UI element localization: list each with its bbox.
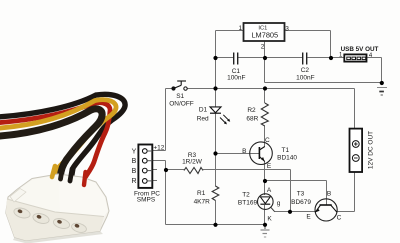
wire connector pin R stub xyxy=(152,180,157,182)
ground at USB xyxy=(377,88,387,96)
connector body right bright face xyxy=(55,175,108,217)
capacitor C1 xyxy=(227,53,245,82)
wire connector pin B2 lead xyxy=(152,160,165,162)
node rail/R2 xyxy=(263,86,267,90)
wire +12 rail S1 to 12V out corner xyxy=(187,88,355,90)
wire capacitor row C1-C2 xyxy=(238,57,302,59)
node T1 base xyxy=(213,151,217,155)
wire up to 12V out minus xyxy=(354,172,356,212)
node USB ground xyxy=(380,81,384,85)
wire harness black strand 1 (outer) xyxy=(0,94,125,180)
svg-text:S1: S1 xyxy=(176,93,184,100)
wire stub red over body xyxy=(84,172,86,185)
wire stub black over body xyxy=(61,167,63,179)
node output/C2 xyxy=(329,56,333,60)
svg-text:12V DC OUT: 12V DC OUT xyxy=(368,131,375,169)
node C1 left xyxy=(213,56,217,60)
node pin2/C row xyxy=(263,56,267,60)
svg-text:2: 2 xyxy=(261,44,265,51)
wire connector pin Y lead xyxy=(152,150,165,152)
wire T3 base drop xyxy=(326,181,328,206)
svg-text:E: E xyxy=(306,214,311,221)
connector body top-front edge xyxy=(7,199,104,217)
svg-text:A: A xyxy=(267,187,272,194)
svg-text:K: K xyxy=(267,215,272,222)
wire IC1 pin3 to right xyxy=(285,30,331,32)
connector body front face xyxy=(6,199,104,241)
svg-text:Red: Red xyxy=(197,116,209,123)
wire capacitor row C1 left xyxy=(216,57,234,59)
thyristor T2 BT169 xyxy=(238,187,281,222)
svg-text:ON/OFF: ON/OFF xyxy=(169,100,194,107)
svg-text:T2: T2 xyxy=(242,192,250,199)
wire anode node to T3 base row xyxy=(265,180,327,182)
wire R2 top lead xyxy=(264,89,266,104)
svg-text:68R: 68R xyxy=(246,115,258,122)
ground at T2 cathode xyxy=(261,225,270,238)
svg-text:BD679: BD679 xyxy=(291,199,311,206)
schematic wires (gray) xyxy=(152,31,381,225)
svg-text:USB 5V OUT: USB 5V OUT xyxy=(341,46,379,53)
IC1 LM7805 regulator xyxy=(238,23,289,51)
connector pin socket 1 xyxy=(17,209,23,214)
wire T3 collector to right xyxy=(337,211,355,213)
wire LED cathode down to T1 base node xyxy=(215,113,217,187)
svg-text:3: 3 xyxy=(285,26,289,33)
wire +12 rail from S1 corner xyxy=(166,88,175,90)
connector pin well 1 xyxy=(13,206,31,219)
wire IC1 pin1 to input node xyxy=(216,30,244,32)
wire T1 base lead xyxy=(216,153,260,155)
wire T2 cathode down to ground rail xyxy=(264,205,266,225)
resistor R3 1R/2W xyxy=(182,152,203,174)
connector body drop shadow xyxy=(13,231,103,243)
wire gate node to T3 emitter xyxy=(291,211,316,213)
wire stub yellow over body xyxy=(52,166,55,177)
wire pin3 down to output node xyxy=(330,31,332,58)
connector pin well 4 xyxy=(71,222,88,234)
svg-text:1: 1 xyxy=(238,25,242,32)
wire R3 right to gate drop xyxy=(203,169,291,171)
wire gate drop vertical xyxy=(290,170,292,212)
wire left drop to ground rail xyxy=(165,170,167,225)
svg-text:LM7805: LM7805 xyxy=(251,31,278,40)
svg-text:D1: D1 xyxy=(199,107,208,114)
node T1 emitter / T2 anode xyxy=(263,179,267,183)
svg-text:1R/2W: 1R/2W xyxy=(182,159,203,166)
LED D1 xyxy=(197,107,230,125)
svg-text:R1: R1 xyxy=(197,190,206,197)
svg-text:SMPS: SMPS xyxy=(137,196,156,203)
svg-text:T1: T1 xyxy=(282,147,290,154)
svg-text:B: B xyxy=(327,191,331,198)
node K / ground rail xyxy=(263,223,267,227)
wire input vertical rail x=215.5 xyxy=(215,31,217,108)
svg-text:B: B xyxy=(242,148,246,155)
wire pin B2 down to R3 node xyxy=(165,161,167,170)
svg-text:100nF: 100nF xyxy=(227,74,245,81)
svg-text:C: C xyxy=(337,214,342,221)
wire bottom ground rail xyxy=(166,224,266,226)
wire R1 bottom to ground rail xyxy=(215,201,217,225)
connector pin socket 3 xyxy=(57,219,63,224)
svg-text:4K7R: 4K7R xyxy=(194,198,211,205)
connector pin well 3 xyxy=(52,217,70,230)
svg-text:BD140: BD140 xyxy=(277,154,297,161)
connector body main outline xyxy=(6,174,109,241)
wire pin2 node to USB ground xyxy=(265,82,382,84)
From PC SMPS connector xyxy=(131,144,164,203)
wire T1 emitter down to anode node xyxy=(264,162,266,196)
wire R2 bottom to T1 collector xyxy=(264,126,266,147)
connector pin socket 2 xyxy=(36,214,42,219)
USB 5V OUT connector xyxy=(339,46,379,62)
node R1 / ground rail xyxy=(213,223,217,227)
wire stub black2 over body xyxy=(70,169,72,181)
connector left latch ramp xyxy=(10,189,26,203)
svg-text:+12: +12 xyxy=(153,144,164,151)
connector pin socket 4 xyxy=(74,223,80,228)
wire T2 gate to node xyxy=(275,211,291,213)
wire +12 vertical to connector pin Y xyxy=(165,89,167,151)
connector pin well 2 xyxy=(32,212,50,225)
svg-text:g: g xyxy=(277,200,281,207)
svg-text:T3: T3 xyxy=(297,191,305,198)
emitted light arrows xyxy=(220,118,226,124)
svg-text:C: C xyxy=(265,137,270,144)
wire connector pin B3 stub xyxy=(152,169,157,171)
wire USB pin4 down to ground node xyxy=(381,58,383,83)
node gate / T3 emitter xyxy=(288,210,292,214)
svg-text:E: E xyxy=(267,163,272,170)
resistor R1 4K7R xyxy=(194,186,219,205)
connector body top face highlight xyxy=(9,175,60,214)
12V DC OUT connector xyxy=(350,129,375,172)
switch S1 ON/OFF xyxy=(169,81,194,107)
svg-text:C2: C2 xyxy=(301,67,310,74)
svg-text:B: B xyxy=(132,168,137,175)
resistor R2 68R xyxy=(246,103,268,126)
svg-text:R: R xyxy=(131,178,136,185)
svg-text:B: B xyxy=(132,158,137,165)
wire USB pin4 lead xyxy=(368,57,382,59)
svg-text:100nF: 100nF xyxy=(296,75,314,82)
svg-text:BT169: BT169 xyxy=(238,200,258,207)
wire harness yellow strand xyxy=(0,100,116,176)
svg-text:R2: R2 xyxy=(247,107,256,114)
capacitor C2 xyxy=(296,53,314,82)
wire harness black strand 2 (inner) xyxy=(0,109,102,178)
Molex PSU connector photo xyxy=(0,94,125,243)
svg-text:Y: Y xyxy=(132,148,137,155)
wire R3 node to zigzag xyxy=(166,169,185,171)
wire IC1 pin2 down xyxy=(264,42,266,83)
transistor T3 BD679 xyxy=(291,191,341,222)
wire capacitor row C2 to USB pin1 xyxy=(308,57,344,59)
node R3 left xyxy=(164,168,168,172)
wire harness red strand xyxy=(0,103,110,184)
wire down to 12V out plus xyxy=(354,89,356,129)
node rail/LED xyxy=(213,86,217,90)
transistor T1 BD140 xyxy=(242,137,297,170)
